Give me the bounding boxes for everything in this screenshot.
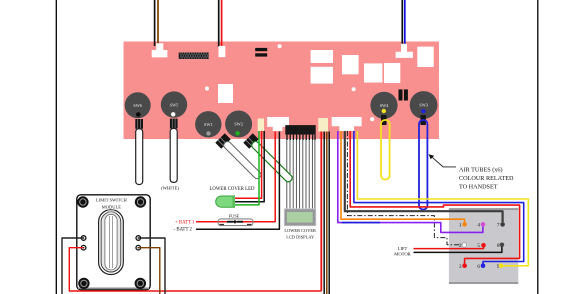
- module screw BL: [78, 278, 89, 289]
- svg-text:+ BATT 1: + BATT 1: [175, 221, 195, 226]
- module pin R2: [136, 245, 141, 250]
- svg-text:LOWER COVER: LOWER COVER: [284, 228, 316, 233]
- handset connector block: [449, 208, 518, 282]
- switch SW5: [161, 91, 187, 117]
- air tube yellow SW4: [381, 115, 387, 125]
- pad square D: [364, 63, 382, 82]
- module pin R1: [136, 236, 141, 241]
- svg-text:6: 6: [477, 264, 480, 270]
- wire blue handset: [354, 131, 524, 264]
- limit switch module box: [77, 195, 150, 290]
- wire red handset: [350, 131, 519, 264]
- svg-text:SW1: SW1: [204, 122, 213, 127]
- via dot: [370, 117, 374, 121]
- wire purple pin4: [338, 131, 483, 232]
- svg-text:SW2: SW2: [234, 122, 243, 127]
- svg-text:LIMIT SWITCH: LIMIT SWITCH: [96, 197, 128, 202]
- wire red lift motor pin5: [414, 247, 484, 249]
- LCD display: [284, 209, 316, 226]
- wire red LED: [235, 131, 262, 198]
- wire brown to connector CN1: [157, 0, 159, 46]
- pad square G: [218, 84, 233, 103]
- pad square E: [384, 63, 400, 83]
- svg-text:SW3: SW3: [419, 103, 429, 108]
- svg-text:TO HANDSET: TO HANDSET: [459, 183, 498, 190]
- module pin L1: [81, 236, 86, 241]
- switch SW1: [195, 111, 221, 137]
- ribbon connector CN6: [285, 125, 315, 135]
- air tube blue SW3: [420, 115, 426, 125]
- wire red BATT1: [196, 132, 275, 222]
- pad square F: [417, 47, 433, 67]
- via dot: [278, 44, 282, 48]
- via dot: [205, 87, 209, 91]
- svg-text:(WHITE): (WHITE): [161, 186, 179, 191]
- svg-text:COLOUR RELATED: COLOUR RELATED: [459, 175, 514, 182]
- svg-text:LOWER COVER LED: LOWER COVER LED: [209, 187, 255, 192]
- svg-text:- BATT 2: - BATT 2: [174, 228, 193, 233]
- wire green LED: [235, 131, 259, 205]
- connector white T CN5: [267, 117, 289, 131]
- svg-text:SW4: SW4: [380, 103, 390, 108]
- wire black to connector CN2: [218, 0, 220, 47]
- wire red cream2: [320, 132, 322, 292]
- wire black module right: [138, 238, 165, 294]
- SW5 probe tube: [170, 128, 177, 182]
- pad square C: [342, 55, 359, 74]
- module screw TR: [135, 196, 146, 207]
- wire blue overlay segment: [342, 222, 381, 224]
- svg-text:1: 1: [459, 223, 462, 229]
- wire black to connector CN3: [401, 0, 403, 45]
- wire black cream2 b: [328, 132, 330, 294]
- svg-text:7: 7: [497, 223, 500, 229]
- LED D1: [216, 196, 233, 207]
- via dot: [352, 87, 356, 91]
- PCB board: [124, 42, 440, 140]
- component bars C2: [399, 89, 403, 100]
- svg-text:SW6: SW6: [133, 103, 143, 108]
- wire yellow handset: [357, 131, 528, 266]
- wire brown module right: [138, 248, 160, 294]
- wire black to connector CN1: [154, 0, 156, 46]
- SW1 air tube: [222, 140, 262, 180]
- svg-text:FUSE: FUSE: [229, 213, 240, 218]
- ribbon cable: [287, 140, 315, 209]
- SW5 probe cap: [170, 119, 178, 129]
- pin header J1: [179, 53, 209, 60]
- border frame right: [537, 0, 539, 294]
- svg-text:8: 8: [497, 243, 500, 249]
- svg-text:LIFT: LIFT: [398, 246, 408, 251]
- wire orange pin1: [341, 131, 465, 222]
- connector white T CN8: [332, 117, 362, 131]
- switch SW4: [370, 92, 397, 119]
- SW2 air tube green: [250, 140, 293, 183]
- pad square B: [311, 67, 333, 84]
- connector cream CN4: [258, 119, 264, 132]
- module slot: [99, 210, 124, 275]
- connector CN2: [219, 46, 226, 57]
- svg-text:3: 3: [459, 264, 462, 270]
- wire black lift motor pin8: [414, 247, 502, 253]
- switch SW6: [125, 92, 151, 118]
- wire brown cream2: [326, 132, 328, 294]
- svg-text:AIR TUBES (x6): AIR TUBES (x6): [459, 166, 503, 173]
- svg-text:MOTOR: MOTOR: [394, 252, 411, 257]
- wire gray handset pin7: [345, 131, 503, 222]
- wire red module left to bottom run: [69, 248, 321, 291]
- wire red to connector CN2: [221, 0, 223, 47]
- callout arrow air tubes: [431, 156, 457, 167]
- SW1 probe rod: [215, 133, 230, 148]
- connector CN1: [152, 43, 168, 57]
- module screw BR: [135, 278, 146, 289]
- wire black BATT2: [196, 132, 279, 230]
- module screw TL: [77, 196, 88, 207]
- svg-text:LCD DISPLAY: LCD DISPLAY: [286, 235, 315, 240]
- wire blue to connector CN3: [404, 0, 406, 45]
- pad square A: [311, 50, 333, 63]
- module pin L2: [81, 245, 86, 250]
- connector CN3: [396, 44, 413, 58]
- component bars C1: [255, 48, 267, 51]
- wire black LED: [235, 131, 264, 202]
- SW2 probe rod: [243, 133, 258, 148]
- SW6 probe tube: [136, 129, 143, 185]
- wire black module left: [62, 238, 84, 294]
- wire dash-dot pin2: [347, 131, 461, 245]
- switch SW2: [225, 111, 252, 138]
- svg-text:SW5: SW5: [170, 102, 180, 107]
- switch SW3: [410, 91, 438, 119]
- svg-text:MODULE: MODULE: [102, 204, 121, 209]
- border frame left: [55, 0, 57, 294]
- svg-text:4: 4: [477, 223, 480, 229]
- SW6 probe cap: [135, 119, 143, 129]
- ribbon connector teeth: [287, 135, 315, 140]
- connector cream CN7: [318, 118, 328, 132]
- wire black cream2 a: [323, 132, 325, 294]
